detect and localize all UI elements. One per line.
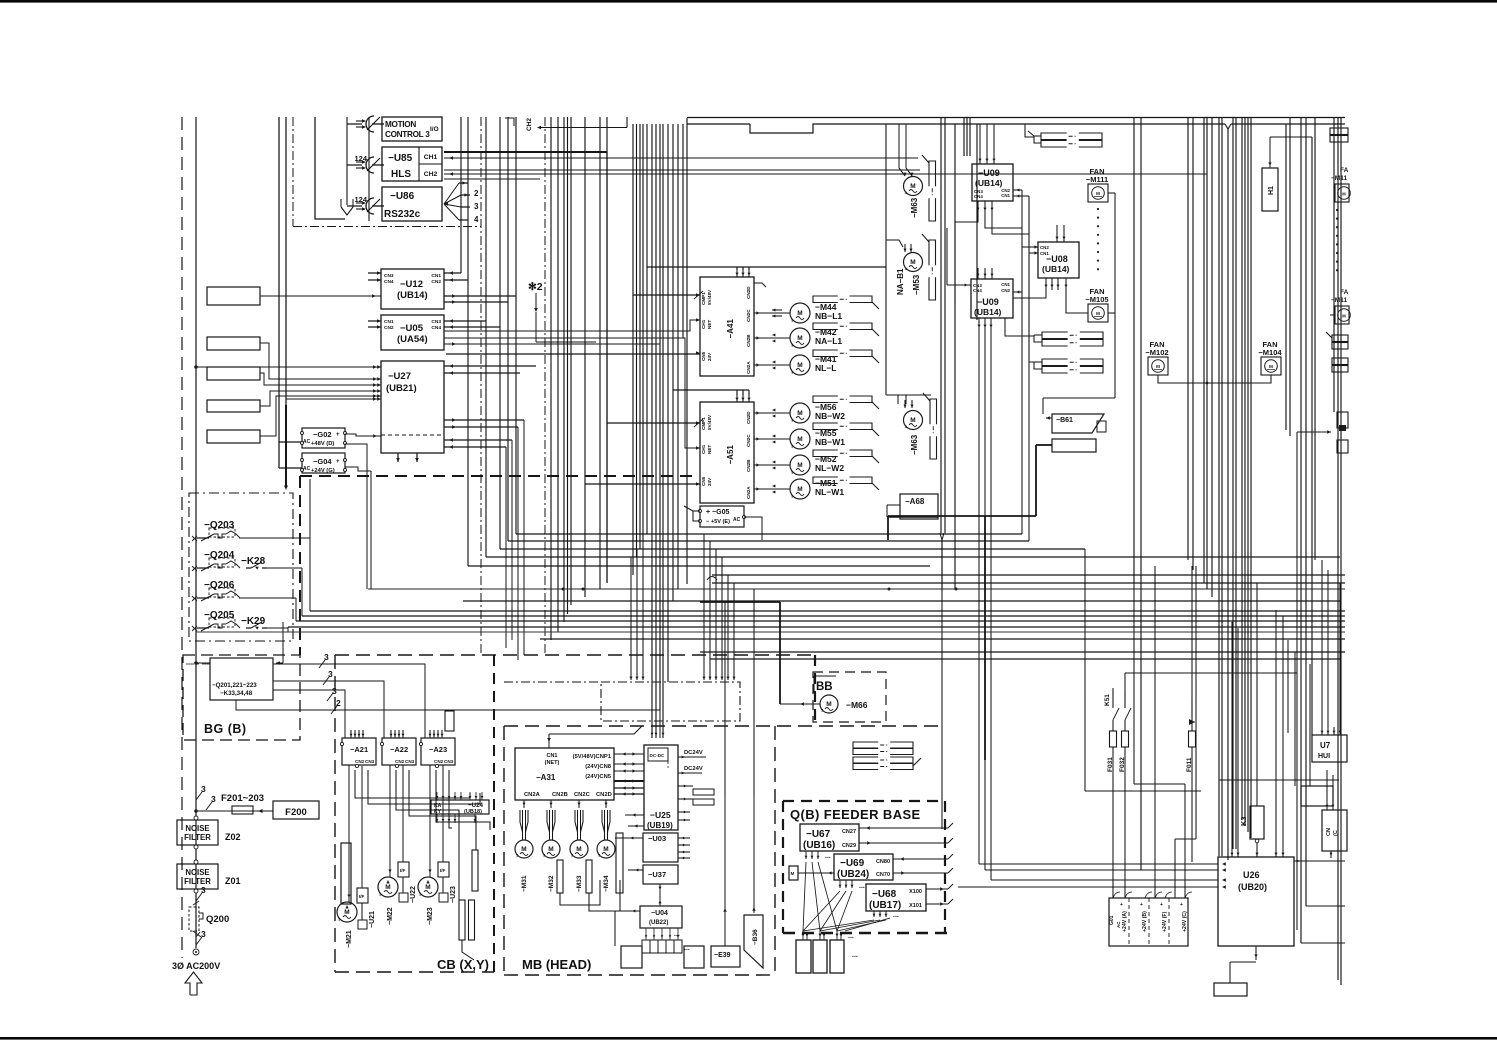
inverter U21 [357,888,368,903]
svg-text:CONTROL 3: CONTROL 3 [385,130,430,139]
wire G02 right [345,434,381,436]
dash-dot zone vertical mid [544,117,546,655]
wire into contactor from top [282,622,284,663]
floor connector [1229,962,1231,983]
svg-text:I/F: I/F [400,868,406,873]
U37 to U04 link [659,884,661,906]
U09 lower right arrows [1012,287,1014,289]
U26 bottom arrow [1255,946,1257,960]
svg-text:−M66: −M66 [846,700,868,710]
bus verticals group E [632,124,634,575]
A31 CN1 top wire [548,734,550,748]
svg-text:3: 3 [201,784,206,794]
dash-dot zone border vertical [292,117,294,226]
servo driver A41 [700,277,754,376]
svg-text:CN5: CN5 [701,476,706,486]
svg-text:CN2: CN2 [1040,245,1049,250]
svg-text:HLS: HLS [391,169,411,180]
svg-text:...: ... [825,853,831,860]
svg-text:Q200: Q200 [206,914,229,925]
motor M56 [754,412,790,414]
contactor box Q201 K33 [210,658,273,700]
connector 124 to U86 [356,202,365,204]
duct pair above QB 2 [853,757,878,763]
slash 3 below Z01 [196,893,202,901]
DC24V outputs [678,756,706,758]
svg-text:−Q201,221~223: −Q201,221~223 [212,682,257,689]
svg-text:−U09: −U09 [978,168,1000,178]
A31 motor funnels and motors [523,800,525,808]
lower-right long horizontals [985,759,1345,761]
wire bundle top-left [278,117,280,468]
junction box A68 [900,494,938,519]
svg-text:CMP1: CMP1 [701,417,706,430]
K51 feed wires up [1112,688,1114,708]
wire bus to U27 [286,398,381,400]
U09 upper top wires [979,124,981,164]
svg-text:−K29: −K29 [241,616,266,627]
A51 top arrows [736,393,738,402]
right edge duct pair 2 [1332,335,1348,342]
svg-text:+24V (G): +24V (G) [311,468,335,474]
svg-text:M: M [1342,314,1346,319]
svg-text:−U68: −U68 [872,889,897,900]
U04 bottom connector strip [645,928,647,940]
motor M23 [418,877,438,897]
svg-text:CN2A: CN2A [524,792,541,798]
svg-text:CH2: CH2 [424,171,438,178]
svg-text:−M33: −M33 [576,875,583,892]
svg-text:...: ... [859,883,865,890]
M42 cable duct [813,323,838,330]
U08 top feed [1056,225,1058,232]
svg-text:CN2: CN2 [355,759,365,764]
wire U05 to A51 net [444,338,700,448]
right staircase wires [1133,583,1135,784]
svg-text:−K33,34,48: −K33,34,48 [220,690,253,697]
svg-text:CH2: CH2 [526,118,533,131]
CB(X,Y) dashed zone border [335,654,815,656]
right edge duct pair 1 [1330,128,1348,135]
wire CH2 hook top [505,118,514,126]
U08 top arrows [1056,232,1058,242]
right edge upper connector box [1301,786,1333,806]
svg-text:−A23: −A23 [429,745,447,754]
svg-text:+24V (A): +24V (A) [1122,911,1128,932]
svg-text:DC-DC: DC-DC [650,753,665,758]
BG output wires with wire-count slashes [273,664,425,738]
QB feeder base border [783,800,945,802]
M66 feed wire [780,703,820,705]
U09 lower to duct 2 [1005,318,1034,336]
svg-text:(UB14): (UB14) [397,290,428,301]
feeder slots [796,940,811,973]
U24 top arrows [436,792,438,800]
A31 to U25 harness [614,753,644,755]
servo amp A23 [421,738,455,765]
U26 right arrow [1294,860,1345,862]
dash-dot zone vertical right [480,117,482,655]
svg-text:NL−W2: NL−W2 [815,463,844,473]
svg-text:−B61: −B61 [1056,417,1073,424]
BB dashed zone [813,672,886,722]
right edge dotted line [1336,209,1338,211]
svg-text:CN1: CN1 [546,753,557,759]
wire to BG region with down arrow [285,117,287,405]
svg-text:−M104: −M104 [1258,348,1282,357]
wire G04 right [345,467,371,471]
U09 lower bottom wires [978,318,980,330]
svg-text:AC: AC [733,517,741,523]
svg-text:M: M [1269,364,1273,369]
fuse F200 branch wire [196,810,273,812]
duct pair mid 2 [1042,359,1068,366]
svg-text:+24V (B): +24V (B) [1142,911,1148,932]
driver box U37 [643,865,678,884]
svg-text:CN4: CN4 [973,288,982,293]
M63 upper duct [929,161,936,186]
svg-text:BB: BB [816,681,833,693]
svg-text:−U23: −U23 [450,886,457,903]
wire box4 to U27 [260,391,381,406]
svg-text:CN2A: CN2A [746,361,751,374]
duct pair mid 1 [1042,332,1068,339]
svg-text:CN70: CN70 [876,872,890,878]
svg-text:−G04: −G04 [313,457,332,466]
svg-text:RS232c: RS232c [384,209,421,220]
svg-text:(24V)CN5: (24V)CN5 [585,774,612,780]
svg-text:−U12: −U12 [400,279,423,290]
svg-text:3Ø AC200V: 3Ø AC200V [172,961,220,971]
U68 bottom arrows [873,911,875,917]
motor M53 [886,240,903,247]
M box feeder left [789,866,798,880]
U67 bottom arrows [805,851,807,859]
noise filter Z02 [177,820,218,845]
machine zone dashed border left [299,476,301,655]
main unit U26 UB20 [1218,857,1294,946]
svg-text:(5V/48V)CNP1: (5V/48V)CNP1 [573,754,612,760]
svg-text:+48V (D): +48V (D) [311,441,334,447]
A41 left feed wires [633,294,700,296]
svg-text:CN3: CN3 [444,759,454,764]
svg-text:+: + [336,459,340,465]
U25 right lower arrows [678,811,690,813]
duct feed wires [1025,124,1034,137]
B61 feed wire [1042,398,1044,414]
svg-text:3: 3 [201,885,206,895]
hub U09 lower UB14 [971,279,1013,318]
svg-text:NB−W1: NB−W1 [815,437,845,447]
svg-text:F201~203: F201~203 [221,793,264,804]
power supply G02 +48V [302,428,345,448]
hub U7 HUB right edge [1312,735,1347,762]
right verticals bundle [940,117,942,533]
svg-text:CN2C: CN2C [746,309,751,322]
svg-text:...: ... [848,933,854,940]
supply source terminal [193,949,199,955]
svg-text:+: + [1180,902,1183,908]
svg-text:+24V (C): +24V (C) [1182,911,1188,932]
K3 feed wire up [1256,583,1258,806]
svg-text:CN2B: CN2B [552,792,568,798]
frame top arrows cluster 2 [703,666,705,680]
svg-text:...: ... [852,952,858,959]
svg-text:CH1: CH1 [701,444,706,454]
wire box2 to U27 [260,343,381,379]
U26 left arrows [1222,862,1226,865]
svg-text:CN1: CN1 [1040,251,1049,256]
svg-text:CN2D: CN2D [746,411,751,424]
svg-text:−M111: −M111 [1086,175,1108,184]
svg-text:CN3: CN3 [431,319,441,325]
svg-text:NET: NET [707,445,712,454]
svg-text:−M63: −M63 [910,434,919,455]
svg-text:(UA54): (UA54) [397,334,428,345]
svg-text:CN2A: CN2A [746,486,751,499]
U08 left arrows [1034,245,1038,248]
svg-text:NOISE: NOISE [185,868,209,877]
right edge duct pair 3 [1332,358,1348,365]
top black header bar [0,0,1497,3]
svg-text:− +5V (E): − +5V (E) [706,519,730,525]
inverter U22 [398,862,409,877]
motor M66 [820,695,838,713]
G01 top hooks [1113,892,1120,898]
fuse F200 box [273,801,319,819]
main vertical supply line [195,117,197,948]
svg-text:I/O: I/O [430,126,439,133]
svg-text:3: 3 [201,929,206,939]
bus verticals group F [651,124,653,738]
svg-text:NOISE: NOISE [185,824,209,833]
G01 feed wires up [1154,566,1156,898]
svg-text:CN5: CN5 [701,351,706,361]
head squares [621,946,642,968]
svg-text:F200: F200 [285,807,307,818]
U09 upper bottom wires [977,201,979,213]
svg-text:+: + [336,432,340,438]
svg-text:CN2: CN2 [384,325,394,331]
A51 left pins [696,421,700,425]
svg-text:NB−L1: NB−L1 [815,311,842,321]
svg-text:K51: K51 [1104,694,1111,706]
svg-text:3: 3 [211,794,216,804]
U12 right wires [444,272,461,274]
svg-text:2: 2 [474,189,479,198]
inverter U23 [438,862,449,877]
duct pair top right [1041,133,1067,140]
svg-text:(UB21): (UB21) [386,383,417,394]
svg-text:U26: U26 [1243,870,1260,880]
svg-text:NA−L1: NA−L1 [815,336,842,346]
head power board U25 UB19 [644,745,678,830]
svg-text:−M21: −M21 [346,930,353,948]
M55 cable duct [813,423,838,430]
svg-text:NB−W2: NB−W2 [815,411,845,421]
svg-text:Z02: Z02 [225,832,241,842]
svg-text:FILTER: FILTER [184,877,211,886]
U25 left lower arrows [625,814,644,816]
bus junction dots [888,588,891,591]
M41 cable duct [813,350,838,357]
svg-text:(UB20): (UB20) [1238,882,1267,892]
box U85 HLS [382,147,442,181]
motor M22 [378,877,398,897]
svg-text:CN3: CN3 [384,273,394,279]
staircase wires below A2x [348,765,350,902]
U05 left arrows [377,319,381,323]
svg-text:(UB19): (UB19) [647,821,673,830]
thick bus to B61 connector [1036,444,1052,446]
svg-text:K3: K3 [1239,816,1248,826]
svg-text:−M105: −M105 [1085,295,1108,304]
svg-text:(NET): (NET) [545,760,560,766]
svg-text:(UB16): (UB16) [803,840,835,851]
servo driver A51 [700,402,754,503]
U26 top feed wires [1231,622,1233,849]
head interface board A31 [515,748,614,800]
svg-text:CN2: CN2 [434,759,444,764]
U05 right wires [444,320,486,322]
motor M63 upper [898,124,900,168]
svg-text:(UB14): (UB14) [974,307,1002,317]
machine zone dashed border top [300,475,695,477]
svg-text:−M23: −M23 [427,907,434,925]
svg-text:CN1: CN1 [384,319,394,325]
svg-text:CN80: CN80 [876,859,890,865]
svg-text:AC: AC [1116,921,1121,928]
svg-text:NA−B1: NA−B1 [896,268,905,295]
M44 cable duct [813,296,838,303]
feeder harness crisscross [803,862,806,931]
sensor B36 [744,915,763,968]
svg-text:CN2C: CN2C [746,434,751,447]
svg-text:CN3: CN3 [405,759,415,764]
RS232 fan-out wires [444,183,461,204]
right edge small box [1337,440,1348,453]
M51 cable duct [813,477,838,484]
svg-text:−K28: −K28 [241,556,266,567]
M63 lower duct [930,399,937,424]
input up arrow [185,972,202,995]
svg-text:−B36: −B36 [752,929,759,945]
svg-text:CN2: CN2 [395,759,405,764]
left page dashed border [181,117,183,958]
A41 left pins [696,293,700,297]
CB wiring staircase to right [355,770,470,798]
svg-text:CN3: CN3 [365,759,375,764]
svg-text:−M32: −M32 [548,875,555,892]
svg-text:(UB22): (UB22) [649,920,668,926]
right edge connector box [1322,810,1347,851]
svg-text:I/F: I/F [440,868,446,873]
svg-text:(UB14): (UB14) [975,178,1003,188]
svg-text:−A51: −A51 [726,445,735,465]
box U86 RS232c [382,187,442,221]
svg-text:KY: KY [434,809,442,815]
feeder controller U69 UB24 [834,854,893,880]
svg-text:CN2D: CN2D [746,286,751,299]
svg-text:+: + [1120,902,1123,908]
U69 bottom arrows [839,880,841,888]
svg-text:−U86: −U86 [390,191,415,202]
U08 bottom wires [1045,278,1047,290]
outline V notch [1225,124,1231,129]
svg-text:−U69: −U69 [840,858,865,869]
power supply G04 +24V [302,453,345,473]
wires G02 G04 down to bus [366,449,368,589]
network hub U09 upper UB14 [972,164,1013,201]
bus verticals left-mid group [460,117,462,273]
svg-text:+ −G05: + −G05 [706,509,729,516]
slash 3 below Q200 [196,937,202,945]
svg-text:CB (X,Y): CB (X,Y) [437,957,489,972]
fan M102-M104 wire [1158,375,1271,383]
box MOTION CONTROL 3 [382,117,442,141]
svg-text:−M102: −M102 [1145,348,1168,357]
svg-text:−A68: −A68 [905,497,925,506]
U27 left arrows [377,365,381,368]
right edge corner tails [1301,942,1345,944]
svg-text:124: 124 [354,195,367,204]
U27 bottom arrows [397,453,399,462]
svg-text:4: 4 [474,215,479,224]
svg-text:CH1: CH1 [701,319,706,329]
svg-text:−E39: −E39 [714,952,731,959]
svg-text:DC24V: DC24V [684,750,703,756]
svg-text:CN2: CN2 [1001,288,1010,293]
motor M63 lower [886,394,931,396]
duct 2 feed [1029,198,1034,362]
wires from U85 CH1 CH2 [444,151,607,153]
svg-text:+: + [1160,902,1163,908]
U09 lower left wire [947,284,971,286]
dash-dot breaker zone border [189,493,293,641]
fan column wire [1114,193,1116,398]
svg-text:CN4: CN4 [431,325,441,331]
svg-text:24V: 24V [707,352,712,361]
A21 A22 A23 top feed arrows [350,730,352,738]
wire main to U27 top [196,366,381,368]
small connector above A23 [445,711,454,731]
heavy dashed divider right of CB [814,655,816,722]
U7 feed verticals [1321,560,1323,727]
motor M21 [337,902,357,922]
dash-dot horizontal zone border [293,226,481,228]
svg-text:5V/48V: 5V/48V [707,414,712,430]
connector under B61 [1052,439,1096,452]
A41 A51 top feed horizontals [647,266,886,268]
servo amp A21 [342,738,376,765]
bus verticals group D [584,117,586,597]
svg-text:−U05: −U05 [400,323,424,334]
zone border corner [315,117,345,219]
motor M51 [754,488,790,490]
sensor B61 [1052,414,1104,433]
mid verticals to frame arrows [703,534,705,666]
control bus vertical 2 [368,117,370,221]
misc step wires lower right [1028,124,1030,198]
hub U08 UB14 [1038,242,1079,278]
svg-text:NL−W1: NL−W1 [815,487,844,497]
svg-text:M: M [1156,364,1160,369]
fan dotted continuation [1097,208,1099,210]
BG(B) dashed zone [183,655,300,740]
svg-text:−M31: −M31 [521,875,528,892]
svg-text:CN1: CN1 [431,273,441,279]
five wall terminal boxes [207,287,260,305]
